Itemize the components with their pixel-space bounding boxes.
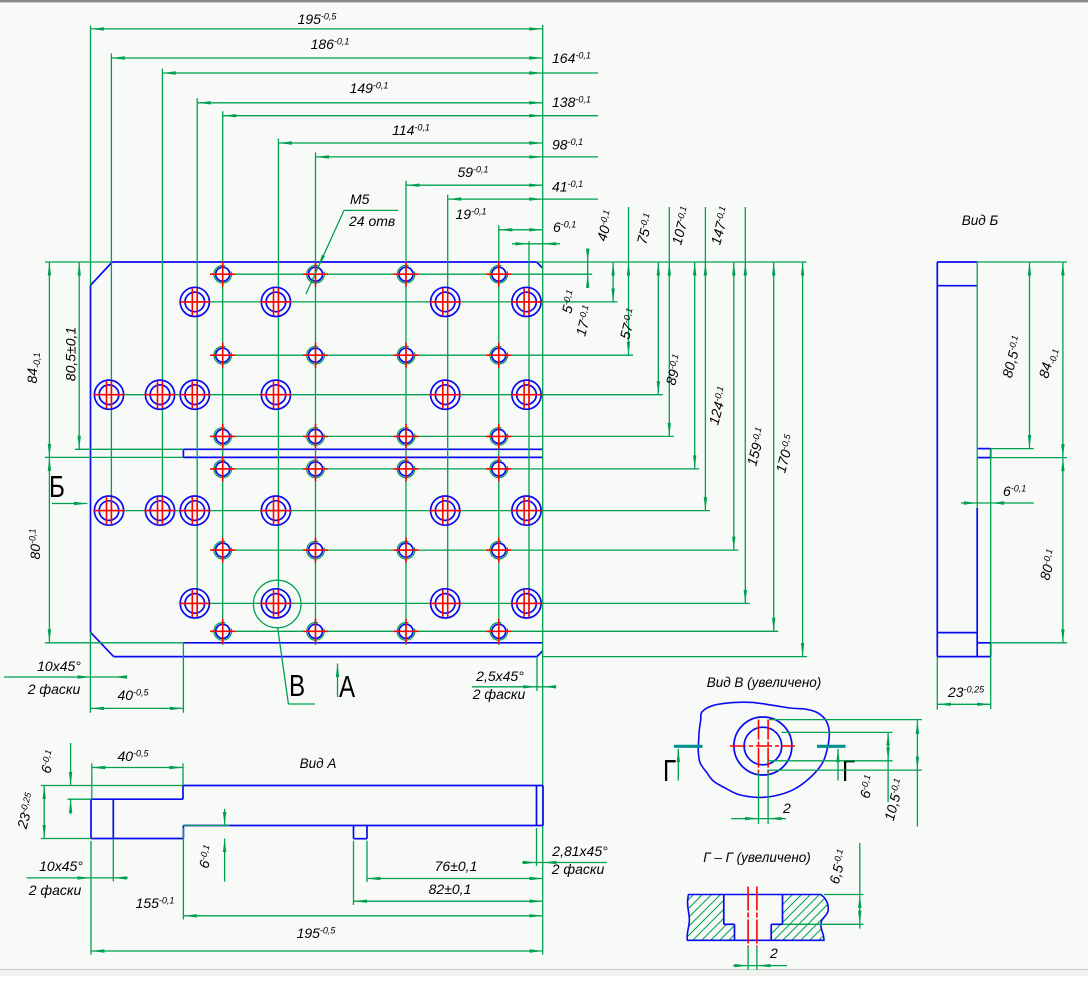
dimension 89 (right chain): [662, 262, 696, 469]
counterbored hole r107 c189: [511, 496, 542, 525]
view A arrow and label: [336, 664, 356, 704]
2,81x45 chamfer callout (view A): [522, 828, 608, 877]
dimension 17 (right chain): [572, 262, 614, 338]
dimension 84 (left): [24, 262, 51, 457]
view В slot line right: [767, 720, 769, 773]
counterbored hole r57 c46: [179, 380, 210, 409]
counterbored hole r107 c154: [430, 496, 461, 525]
dimension 6 (view В): [856, 732, 889, 802]
M5 hole r124 c136: [394, 538, 419, 563]
10x45 chamfer callout (view A): [27, 839, 129, 899]
svg-text:2 фаски: 2 фаски: [27, 681, 81, 697]
svg-text:Г – Г (увеличено): Г – Г (увеличено): [703, 850, 811, 865]
M5 hole r5 c136: [394, 262, 419, 287]
dimension 6 (view A step): [183, 809, 230, 882]
dimension 107 (right chain): [668, 205, 707, 511]
dimension 19 (top chain): [455, 206, 542, 232]
M5 hole r159 c176: [486, 619, 511, 644]
top window border bar: [0, 0, 1088, 3]
dimension 149 (top chain): [197, 80, 543, 105]
dimension 98 (top chain): [316, 137, 599, 159]
view A top edge extension: [41, 785, 183, 787]
10x45 chamfer callout (main): [4, 658, 127, 697]
svg-text:2: 2: [769, 945, 778, 961]
dimension 59 (top chain): [406, 164, 543, 187]
dimension 10,5 (view В): [881, 720, 919, 826]
section Г-Г hatching: [600, 877, 927, 952]
svg-text:2,81х45°: 2,81х45°: [551, 843, 608, 859]
view A profile outline: [91, 786, 543, 839]
left edge extension line: [90, 26, 92, 286]
bottom step edge: [183, 642, 542, 644]
dimension 6 (view Б rib): [961, 262, 1034, 508]
dimension 164 (top chain): [162, 50, 598, 75]
counterbored hole r17 c81: [260, 287, 291, 316]
dimension 6 (top chain): [512, 219, 576, 246]
svg-text:82±0,1: 82±0,1: [429, 881, 472, 897]
svg-text:10х45°: 10х45°: [39, 858, 83, 874]
hole row center lines: [98, 274, 778, 631]
svg-text:Г: Г: [663, 753, 676, 788]
M5 hole r159 c136: [394, 619, 419, 644]
svg-text:76±0,1: 76±0,1: [435, 858, 478, 874]
dimension 6 (view A top-left): [37, 743, 72, 814]
svg-text:2,5х45°: 2,5х45°: [475, 668, 524, 684]
M5 hole r40 c176: [486, 343, 511, 368]
dimension 40 (view A top): [92, 748, 183, 799]
svg-text:2: 2: [782, 800, 791, 816]
M5 hole r5 c176: [486, 262, 511, 287]
counterbored hole r107 c46: [179, 496, 210, 525]
svg-text:2 фаски: 2 фаски: [472, 686, 526, 702]
view В counterbore circle: [734, 717, 792, 775]
dimension 147 (right chain): [707, 205, 747, 604]
counterbored hole r17 c46: [179, 287, 210, 316]
dimension 84 (view Б): [1035, 262, 1064, 458]
svg-text:24 отв: 24 отв: [348, 213, 395, 229]
dimension 2 (section Г-Г): [733, 945, 787, 970]
slot bottom left extension: [45, 456, 183, 458]
svg-text:Б: Б: [49, 469, 65, 504]
section Г-Г slot lines: [748, 887, 757, 947]
section Г-Г cut plane marks: [674, 745, 846, 748]
M5 hole r124 c176: [486, 538, 511, 563]
counterbored hole r17 c154: [430, 287, 461, 316]
view В horizontal centerline: [730, 745, 795, 747]
counterbored hole r57 c189: [511, 380, 542, 409]
svg-text:80,5±0,1: 80,5±0,1: [63, 327, 79, 381]
counterbored hole r107 c31: [144, 496, 175, 525]
section Г-Г title: [703, 850, 811, 865]
bottom edge right extension: [543, 656, 807, 658]
dimension 186 (top chain): [111, 36, 542, 60]
M5 24-holes leader note: [306, 191, 398, 294]
dimension 124 (right chain): [705, 262, 735, 550]
view Б rib-top extension: [991, 448, 1034, 450]
dimension 155 (view A): [136, 828, 543, 920]
view Б rib-bottom extension: [991, 457, 1067, 459]
M5 hole r89 c57: [210, 456, 235, 481]
svg-text:М5: М5: [350, 191, 370, 207]
M5 hole r159 c57: [210, 619, 235, 644]
counterbored hole r107 c81: [260, 496, 291, 525]
dimension 2 (view В): [731, 773, 791, 824]
M5 hole r75 c176: [486, 424, 511, 449]
view Б arrow and label: [49, 469, 88, 505]
top edge right extension: [537, 261, 807, 263]
svg-text:Вид В (увеличено): Вид В (увеличено): [707, 675, 822, 690]
M5 hole r40 c97: [303, 343, 328, 368]
view В title: [707, 675, 822, 690]
dimension 80 (left): [27, 457, 51, 642]
counterbored hole r147 c46: [179, 589, 210, 618]
counterbored hole r107 c9: [93, 496, 124, 525]
dimension 195 (top chain): [91, 11, 543, 31]
step line left extension: [45, 642, 183, 644]
dimension 195 (view A bottom): [91, 841, 543, 955]
dimension 80,5 (view Б): [999, 262, 1031, 449]
view B callout circle and label: [253, 580, 315, 704]
svg-text:А: А: [339, 669, 356, 704]
section Г-Г outline: [687, 895, 828, 941]
right edge extension line: [542, 25, 544, 955]
dimension 40 (main bottom): [90, 632, 183, 713]
counterbored hole r57 c31: [144, 380, 175, 409]
top edge left extension: [45, 261, 112, 263]
slot groove edges: [183, 449, 542, 457]
view A title: [300, 756, 337, 771]
svg-text:10х45°: 10х45°: [37, 658, 81, 674]
dimension 23 (view A left): [14, 786, 46, 839]
view В extensions right: [768, 720, 922, 771]
M5 hole r40 c136: [394, 343, 419, 368]
dimension 41 (top chain): [448, 179, 598, 201]
dimension 23 (view Б): [937, 684, 990, 706]
M5 hole r89 c136: [394, 456, 419, 481]
dimension 114 (top chain): [278, 122, 542, 145]
M5 hole r159 c97: [303, 619, 328, 644]
view A bottom-left extension: [41, 838, 91, 840]
view Б profile outline: [937, 262, 990, 657]
M5 hole r75 c136: [394, 424, 419, 449]
dimension 5 (right chain): [558, 249, 589, 316]
M5 hole r89 c176: [486, 456, 511, 481]
dimension 159 (right chain): [743, 262, 775, 631]
view В slot line left: [758, 720, 760, 773]
hole column center lines: [111, 54, 529, 646]
view В hole circle: [744, 727, 782, 765]
view Б left bottom extension: [936, 657, 938, 710]
dimension 6,5 (section Г-Г): [783, 843, 864, 929]
M5 hole r75 c97: [303, 424, 328, 449]
dimension 80 (view Б): [1036, 458, 1064, 643]
view A step-top extension: [68, 798, 92, 800]
counterbored hole r147 c154: [430, 589, 461, 618]
M5 hole r89 c97: [303, 456, 328, 481]
view Б top extension: [977, 261, 1067, 263]
section Г labels: [663, 753, 855, 788]
view Б title: [962, 213, 999, 228]
view Б step extension: [991, 642, 1067, 644]
dimension 82 (view A): [354, 841, 544, 905]
view Б rib right extension: [990, 449, 992, 709]
dimension 40 (right chain): [593, 207, 630, 355]
plate outline (main view): [91, 262, 543, 657]
svg-text:2 фаски: 2 фаски: [551, 861, 605, 877]
M5 hole r5 c57: [210, 262, 235, 287]
dimension 57 (right chain): [616, 262, 660, 395]
svg-text:В: В: [289, 668, 305, 703]
M5 hole r5 c97: [303, 262, 328, 287]
dimension 80,5 (left): [63, 262, 81, 449]
bottom separator line: [0, 970, 1088, 976]
counterbored hole r147 c189: [511, 589, 542, 618]
svg-text:Вид А: Вид А: [300, 756, 337, 771]
2,5x45 chamfer callout (main): [472, 657, 556, 702]
M5 hole r40 c57: [210, 343, 235, 368]
dimension 138 (top chain): [223, 94, 598, 117]
M5 hole r75 c57: [210, 424, 235, 449]
slot top left extension: [75, 448, 183, 450]
dimension 75 (right chain): [633, 207, 671, 436]
counterbored hole r57 c81: [260, 380, 291, 409]
counterbored hole r17 c189: [511, 287, 542, 316]
counterbored hole r57 c9: [93, 380, 124, 409]
svg-text:Вид Б: Вид Б: [962, 213, 999, 228]
counterbored hole r57 c154: [430, 380, 461, 409]
view В freeform blob outline: [698, 702, 829, 797]
M5 hole r124 c97: [303, 538, 328, 563]
dimension 170 (right chain): [772, 262, 804, 657]
M5 hole r124 c57: [210, 538, 235, 563]
dimension 76 (view A): [367, 841, 543, 882]
counterbored hole r147 c81: [260, 589, 291, 618]
section Г arrows: [677, 749, 840, 781]
svg-text:2 фаски: 2 фаски: [28, 882, 82, 898]
